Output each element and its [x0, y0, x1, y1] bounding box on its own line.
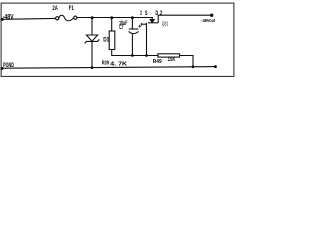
- svg-text:15K: 15K: [168, 57, 176, 63]
- svg-text:4. 7K: 4. 7K: [110, 61, 128, 67]
- svg-text:3: 3: [140, 10, 142, 17]
- svg-text:2: 2: [160, 10, 163, 17]
- svg-text:-48V: -48V: [3, 14, 14, 21]
- svg-text:R39: R39: [102, 60, 110, 66]
- svg-text:R49: R49: [153, 59, 163, 65]
- svg-text:PGND: PGND: [3, 62, 14, 69]
- svg-text:C7: C7: [119, 25, 124, 31]
- svg-text:F1: F1: [69, 5, 75, 12]
- svg-text:Q31: Q31: [162, 22, 168, 28]
- svg-text:2A: 2A: [52, 5, 58, 12]
- svg-text:D1: D1: [103, 37, 109, 44]
- svg-text:D: D: [156, 10, 159, 17]
- svg-text:S: S: [145, 10, 148, 17]
- svg-text:-48Vout: -48Vout: [201, 18, 215, 24]
